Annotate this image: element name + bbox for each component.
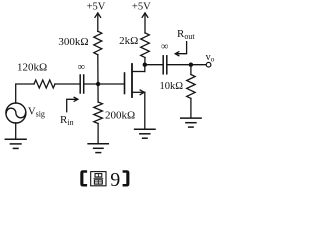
svg-text:+5V: +5V bbox=[132, 2, 151, 13]
svg-text:+5V: +5V bbox=[87, 2, 106, 13]
svg-text:2kΩ: 2kΩ bbox=[119, 35, 138, 47]
svg-text:9: 9 bbox=[110, 169, 120, 191]
svg-text:∞: ∞ bbox=[78, 62, 86, 73]
svg-text:200kΩ: 200kΩ bbox=[105, 110, 135, 122]
svg-text:10kΩ: 10kΩ bbox=[159, 81, 183, 92]
svg-text:vo: vo bbox=[206, 52, 215, 64]
svg-text:∞: ∞ bbox=[161, 42, 169, 53]
svg-text:120kΩ: 120kΩ bbox=[17, 62, 47, 74]
svg-text:300kΩ: 300kΩ bbox=[58, 36, 88, 48]
